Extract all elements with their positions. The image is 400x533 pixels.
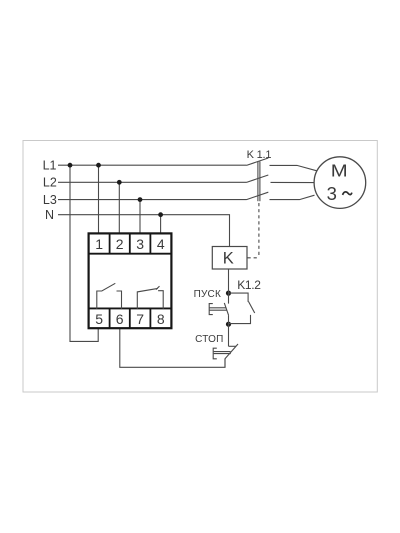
svg-text:K1.2: K1.2	[237, 278, 261, 292]
svg-text:L1: L1	[43, 158, 57, 172]
svg-text:7: 7	[136, 311, 144, 327]
svg-text:L2: L2	[43, 176, 57, 190]
svg-text:K 1.1: K 1.1	[247, 149, 272, 161]
svg-text:2: 2	[116, 236, 124, 252]
svg-text:3: 3	[327, 183, 337, 204]
svg-text:8: 8	[157, 311, 165, 327]
svg-text:6: 6	[116, 311, 124, 327]
svg-text:5: 5	[95, 311, 103, 327]
svg-text:K: K	[223, 250, 234, 268]
svg-text:3: 3	[136, 236, 144, 252]
svg-text:N: N	[45, 208, 54, 222]
svg-text:4: 4	[157, 236, 165, 252]
svg-text:L3: L3	[43, 193, 57, 207]
svg-text:1: 1	[95, 236, 103, 252]
svg-text:СТОП: СТОП	[195, 334, 223, 345]
svg-text:ПУСК: ПУСК	[194, 289, 221, 300]
svg-text:M: M	[331, 162, 348, 181]
